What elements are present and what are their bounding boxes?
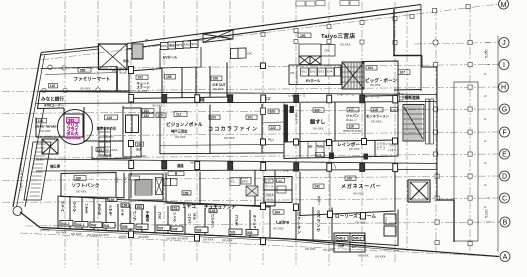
svg-text:102: 102 [138, 76, 144, 80]
svg-text:ショーケース: ショーケース [337, 92, 354, 97]
svg-text:メガネスーパー: メガネスーパー [341, 183, 382, 190]
svg-text:ビジョンノボトル: ビジョンノボトル [166, 121, 203, 128]
svg-text:XX-XXX: XX-XXX [175, 135, 186, 139]
svg-text:M: M [501, 2, 507, 9]
svg-text:117: 117 [349, 108, 354, 112]
svg-text:XX-XXX: XX-XXX [222, 239, 233, 243]
svg-text:ミサモ: ミサモ [108, 205, 113, 216]
svg-text:J: J [502, 40, 506, 47]
svg-text:535: 535 [172, 228, 178, 232]
svg-text:539: 539 [122, 225, 128, 229]
svg-text:115: 115 [373, 108, 378, 112]
svg-text:XX-XXX: XX-XXX [349, 147, 360, 151]
svg-text:151: 151 [172, 207, 178, 211]
svg-text:XX-XXX XX-XXX: XX-XXX XX-XXX [87, 233, 109, 237]
svg-text:I: I [503, 62, 505, 69]
svg-text:A: A [503, 254, 508, 261]
svg-text:XX-XXX: XX-XXX [313, 127, 324, 131]
svg-text:鮨すし: 鮨すし [310, 118, 326, 126]
svg-text:XX-XXX: XX-XXX [203, 238, 214, 242]
svg-text:PS: PS [145, 38, 149, 42]
svg-text:スペランサ: スペランサ [317, 210, 322, 233]
svg-text:ソフトバンク: ソフトバンク [72, 182, 100, 189]
svg-text:PS: PS [150, 68, 154, 72]
svg-text:XX-XXX: XX-XXX [138, 235, 149, 239]
svg-text:コボ: コボ [338, 243, 345, 248]
svg-text:EVホール: EVホール [163, 55, 178, 60]
svg-text:136: 136 [136, 143, 142, 147]
svg-text:機械: 機械 [169, 43, 175, 48]
svg-text:XX-XXX: XX-XXX [305, 247, 316, 251]
svg-text:XX-XXX: XX-XXX [353, 192, 364, 196]
svg-text:コドモ: コドモ [234, 214, 239, 226]
svg-text:回転寿: 回転寿 [266, 192, 275, 197]
svg-text:108: 108 [76, 177, 82, 181]
svg-text:E: E [502, 152, 507, 159]
svg-text:EV3: EV3 [319, 70, 325, 74]
svg-text:EV4: EV4 [327, 70, 333, 74]
svg-text:(XXX): (XXX) [119, 235, 127, 239]
svg-text:152: 152 [144, 114, 150, 118]
svg-text:149: 149 [210, 209, 216, 213]
svg-text:EPS: EPS [184, 43, 190, 47]
svg-text:サーテ: サーテ [265, 184, 274, 189]
svg-text:ピアゴ: ピアゴ [377, 145, 386, 150]
svg-text:545-3: 545-3 [337, 237, 346, 241]
svg-text:101: 101 [247, 116, 253, 120]
svg-text:XX-XXX: XX-XXX [340, 42, 351, 46]
svg-text:543-2: 543-2 [61, 222, 70, 226]
svg-text:PS: PS [112, 69, 116, 73]
svg-text:エル: エル [192, 213, 197, 221]
svg-text:ミキ: ミキ [120, 209, 125, 217]
svg-text:EPS: EPS [177, 43, 183, 47]
svg-text:ミヤコ: ミヤコ [182, 204, 196, 209]
svg-text:XX-XXX: XX-XXX [371, 119, 382, 123]
svg-text:EVホール: EVホール [306, 78, 321, 83]
svg-text:164: 164 [274, 211, 280, 215]
svg-text:PS: PS [291, 71, 295, 75]
svg-text:111: 111 [38, 119, 43, 123]
svg-text:104: 104 [368, 66, 374, 70]
svg-text:XX-XXX: XX-XXX [66, 135, 81, 140]
svg-text:5,000: 5,000 [485, 209, 489, 218]
svg-text:焼肉: 焼肉 [136, 147, 142, 152]
svg-text:XX-XXX: XX-XXX [224, 136, 235, 140]
svg-text:みなと銀行: みなと銀行 [41, 95, 64, 102]
svg-text:機械: 機械 [123, 58, 129, 63]
svg-text:530: 530 [247, 231, 253, 235]
svg-text:千趣会: 千趣会 [145, 210, 150, 222]
svg-text:インフォメーション: インフォメーション [19, 163, 23, 191]
svg-text:(XXXX): (XXXX) [40, 228, 50, 232]
svg-text:EPS: EPS [242, 180, 248, 184]
svg-text:ココカラファイン: ココカラファイン [208, 125, 258, 132]
svg-text:100: 100 [300, 34, 306, 38]
svg-text:541: 541 [104, 224, 110, 228]
svg-text:H: H [501, 85, 506, 92]
svg-text:105: 105 [166, 75, 172, 79]
svg-text:コド: コド [384, 217, 388, 223]
svg-text:XX-XXX: XX-XXX [358, 254, 369, 258]
svg-text:ハウス: ハウス [187, 213, 192, 224]
svg-text:DN: DN [248, 52, 252, 56]
svg-text:XX-XXXX: XX-XXXX [105, 148, 118, 152]
svg-text:G: G [502, 107, 507, 114]
svg-text:XX-XXX: XX-XXX [355, 221, 366, 225]
svg-text:ラッシュ: ラッシュ [252, 214, 257, 229]
svg-text:リオネ: リオネ [84, 203, 89, 214]
svg-text:106: 106 [213, 77, 219, 81]
svg-text:XX-XXX: XX-XXX [76, 190, 87, 194]
svg-text:EV2: EV2 [310, 70, 316, 74]
svg-text:142: 142 [314, 185, 320, 189]
svg-text:RIONE: RIONE [97, 204, 101, 216]
svg-text:500: 500 [80, 68, 86, 72]
svg-text:催広場: 催広場 [50, 164, 61, 169]
svg-text:パンプ: パンプ [132, 210, 137, 222]
svg-text:5,000: 5,000 [485, 49, 489, 58]
svg-text:139: 139 [346, 177, 352, 181]
svg-text:XX-X: XX-X [266, 198, 273, 202]
svg-text:FL: FL [231, 180, 235, 184]
svg-text:ロクシン: ロクシン [352, 243, 366, 248]
svg-text:D: D [502, 174, 507, 181]
svg-text:112: 112 [176, 113, 181, 117]
svg-text:Taiyo三宮店: Taiyo三宮店 [321, 32, 356, 40]
svg-text:C: C [502, 196, 507, 203]
svg-text:XX-XXX XX-XXX: XX-XXX XX-XXX [166, 237, 188, 241]
svg-text:XX-XXX: XX-XXX [152, 104, 163, 108]
svg-text:B: B [503, 220, 508, 227]
svg-text:ラン: ラン [124, 176, 128, 183]
svg-text:モンキラーメン: モンキラーメン [366, 114, 390, 119]
svg-text:神戸三宮店: 神戸三宮店 [171, 128, 188, 133]
svg-text:XX-: XX- [190, 161, 195, 165]
svg-text:ジェム: ジェム [60, 201, 65, 212]
svg-text:ab: ab [309, 145, 313, 149]
svg-text:門川: 門川 [268, 138, 274, 142]
svg-text:121: 121 [269, 110, 275, 114]
svg-text:538: 538 [137, 226, 143, 230]
svg-text:118: 118 [314, 109, 319, 113]
svg-text:XX-XXX: XX-XXX [136, 154, 147, 158]
svg-text:ソック: ソック [172, 212, 177, 223]
svg-text:XX-XXX: XX-XXX [375, 255, 386, 259]
svg-text:103: 103 [210, 116, 216, 120]
svg-text:R11A-ジ: R11A-ジ [346, 118, 357, 122]
svg-text:ローリーズファーム: ローリーズファーム [335, 213, 376, 220]
svg-text:XX-XXX: XX-XXX [273, 227, 284, 231]
svg-text:スギヤマ: スギヤマ [295, 111, 299, 125]
svg-text:110: 110 [50, 84, 55, 88]
svg-text:Tube: Tube [317, 145, 325, 149]
svg-text:156: 156 [122, 204, 128, 208]
svg-text:EPS: EPS [161, 44, 167, 48]
svg-text:XX-XXX: XX-XXX [370, 83, 381, 87]
svg-text:542: 542 [91, 224, 97, 228]
svg-text:151: 151 [144, 109, 150, 113]
svg-text:F: F [502, 130, 506, 137]
svg-text:537: 537 [158, 227, 164, 231]
svg-text:EPS: EPS [192, 42, 198, 46]
svg-text:XX-XXX: XX-XXX [40, 129, 51, 133]
svg-text:533: 533 [196, 229, 202, 233]
svg-text:543-1: 543-1 [76, 223, 85, 227]
svg-text:107: 107 [400, 71, 406, 75]
svg-text:横断陸橋: 横断陸橋 [404, 95, 420, 100]
svg-text:153: 153 [136, 205, 142, 209]
svg-text:545-2: 545-2 [353, 237, 362, 241]
svg-text:通路: 通路 [177, 163, 184, 168]
svg-text:マツゲ: マツゲ [72, 202, 77, 213]
svg-text:バクラン: バクラン [210, 213, 215, 229]
svg-text:XX-XXX: XX-XXX [213, 87, 224, 91]
svg-text:atelier haruka: atelier haruka [35, 124, 57, 128]
svg-text:XX-XXX: XX-XXX [80, 86, 91, 90]
svg-text:531: 531 [230, 231, 236, 235]
svg-text:120: 120 [157, 114, 163, 118]
svg-text:125: 125 [107, 116, 113, 120]
svg-text:XX-XXX: XX-XXX [56, 231, 67, 235]
svg-text:パネル: パネル [388, 147, 397, 152]
svg-text:XX-XXX: XX-XXX [71, 232, 82, 236]
svg-text:EV1: EV1 [302, 70, 308, 74]
svg-text:袋物コ: 袋物コ [317, 195, 321, 206]
svg-text:146: 146 [277, 179, 282, 183]
svg-text:エス: エス [116, 177, 120, 184]
svg-text:135: 135 [317, 153, 322, 157]
svg-text:122: 122 [270, 126, 276, 130]
svg-text:175: 175 [266, 179, 271, 183]
svg-text:OPPO'S FISH: OPPO'S FISH [343, 129, 361, 133]
svg-text:DN: DN [325, 49, 329, 53]
svg-text:Laline: Laline [276, 220, 290, 225]
svg-text:150: 150 [183, 191, 189, 195]
svg-text:113: 113 [97, 148, 102, 152]
svg-text:XX-XXX: XX-XXX [323, 248, 334, 252]
svg-text:ロクシタン: ロクシタン [297, 212, 302, 235]
svg-text:155: 155 [109, 198, 115, 202]
svg-text:119: 119 [391, 108, 396, 112]
svg-text:コス: コス [157, 211, 162, 220]
